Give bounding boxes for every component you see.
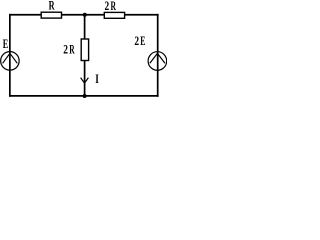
svg-text:R: R [69,42,75,56]
wire top [9,14,159,16]
svg-text:2: 2 [63,42,68,56]
svg-text:R: R [111,0,117,13]
svg-text:2: 2 [134,34,139,48]
current arrow I [81,78,89,84]
source 2E (circle) [148,52,167,71]
wire middle branch [84,14,86,96]
source E (circle) [1,52,20,71]
svg-text:E: E [140,34,145,48]
svg-text:E: E [3,37,9,51]
junction node top [83,13,87,17]
source 2E arrow [150,53,165,63]
wire left [9,14,11,97]
junction node bottom [83,94,87,98]
wire bottom [9,95,159,97]
resistor R [41,12,61,18]
resistor 2R (top right) [104,12,124,18]
svg-text:R: R [49,0,56,13]
source E arrow [3,53,18,63]
svg-text:I: I [95,72,99,86]
svg-text:2: 2 [105,0,110,13]
wire right [157,14,159,97]
resistor 2R (middle) [81,39,88,61]
